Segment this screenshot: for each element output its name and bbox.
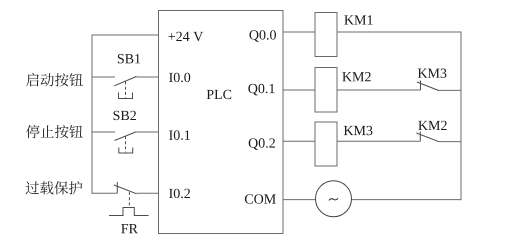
wire KM1 coil to right bus: [337, 31, 462, 33]
label KM3 contact: [418, 69, 447, 78]
label FR: [121, 224, 138, 233]
wire KM3 contact to right bus: [439, 89, 461, 91]
label SB1: [118, 54, 140, 63]
label KM1: [344, 15, 372, 24]
interlock contact KM3 (NC, row Q0.1): [417, 81, 439, 91]
wire SB2 right segment to I0.1: [137, 131, 159, 133]
wire +24V rail top: [92, 34, 159, 36]
label PLC: [207, 90, 232, 99]
wire KM2 contact to right bus: [439, 141, 461, 143]
label stop button 停止按钮: [26, 125, 83, 138]
pin label COM: [245, 194, 276, 203]
wire Q0.2 to KM3 coil: [283, 140, 315, 142]
overload relay contact FR (NC): [109, 182, 149, 216]
pin label I0.0: [169, 73, 190, 83]
pushbutton SB1 (NO start button): [114, 77, 136, 99]
contactor coil KM2: [315, 68, 337, 113]
wire COM to AC source: [283, 199, 316, 201]
AC source G1: [316, 181, 352, 217]
label KM3 coil: [344, 126, 373, 135]
pin label Q0.1: [248, 84, 274, 96]
label KM2 coil: [342, 72, 370, 81]
wire KM3 coil to KM2 contact: [337, 140, 420, 142]
wire FR right segment to I0.2: [137, 192, 159, 194]
pushbutton SB2 (stop button): [115, 132, 137, 153]
wire FR left segment: [92, 192, 117, 194]
contactor coil KM3: [315, 122, 337, 166]
wire Q0.1 to KM2 coil: [283, 89, 315, 91]
pin label +24 V: [168, 32, 203, 41]
pin label Q0.0: [249, 30, 276, 42]
pin label I0.1: [169, 130, 190, 140]
contactor coil KM1: [315, 13, 337, 57]
label SB2: [114, 111, 136, 120]
label overload protection 过载保护: [26, 181, 83, 194]
wire left vertical bus: [91, 35, 93, 194]
PLC controller box U1: [159, 11, 284, 234]
wire KM2 coil to KM3 contact: [337, 89, 421, 91]
wire SB1 right segment to I0.0: [137, 76, 159, 78]
wire SB1 left segment: [92, 76, 115, 78]
pin label I0.2: [169, 189, 190, 199]
pin label Q0.2: [249, 138, 275, 150]
label KM2 contact: [418, 121, 446, 130]
label start button 启动按钮: [26, 73, 83, 86]
wire AC source to right bus: [352, 199, 462, 201]
wire Q0.0 to KM1 coil: [283, 31, 315, 33]
interlock contact KM2 (NC, row Q0.2): [416, 132, 439, 142]
wire right vertical bus: [460, 32, 462, 201]
wire SB2 left segment: [92, 131, 115, 133]
